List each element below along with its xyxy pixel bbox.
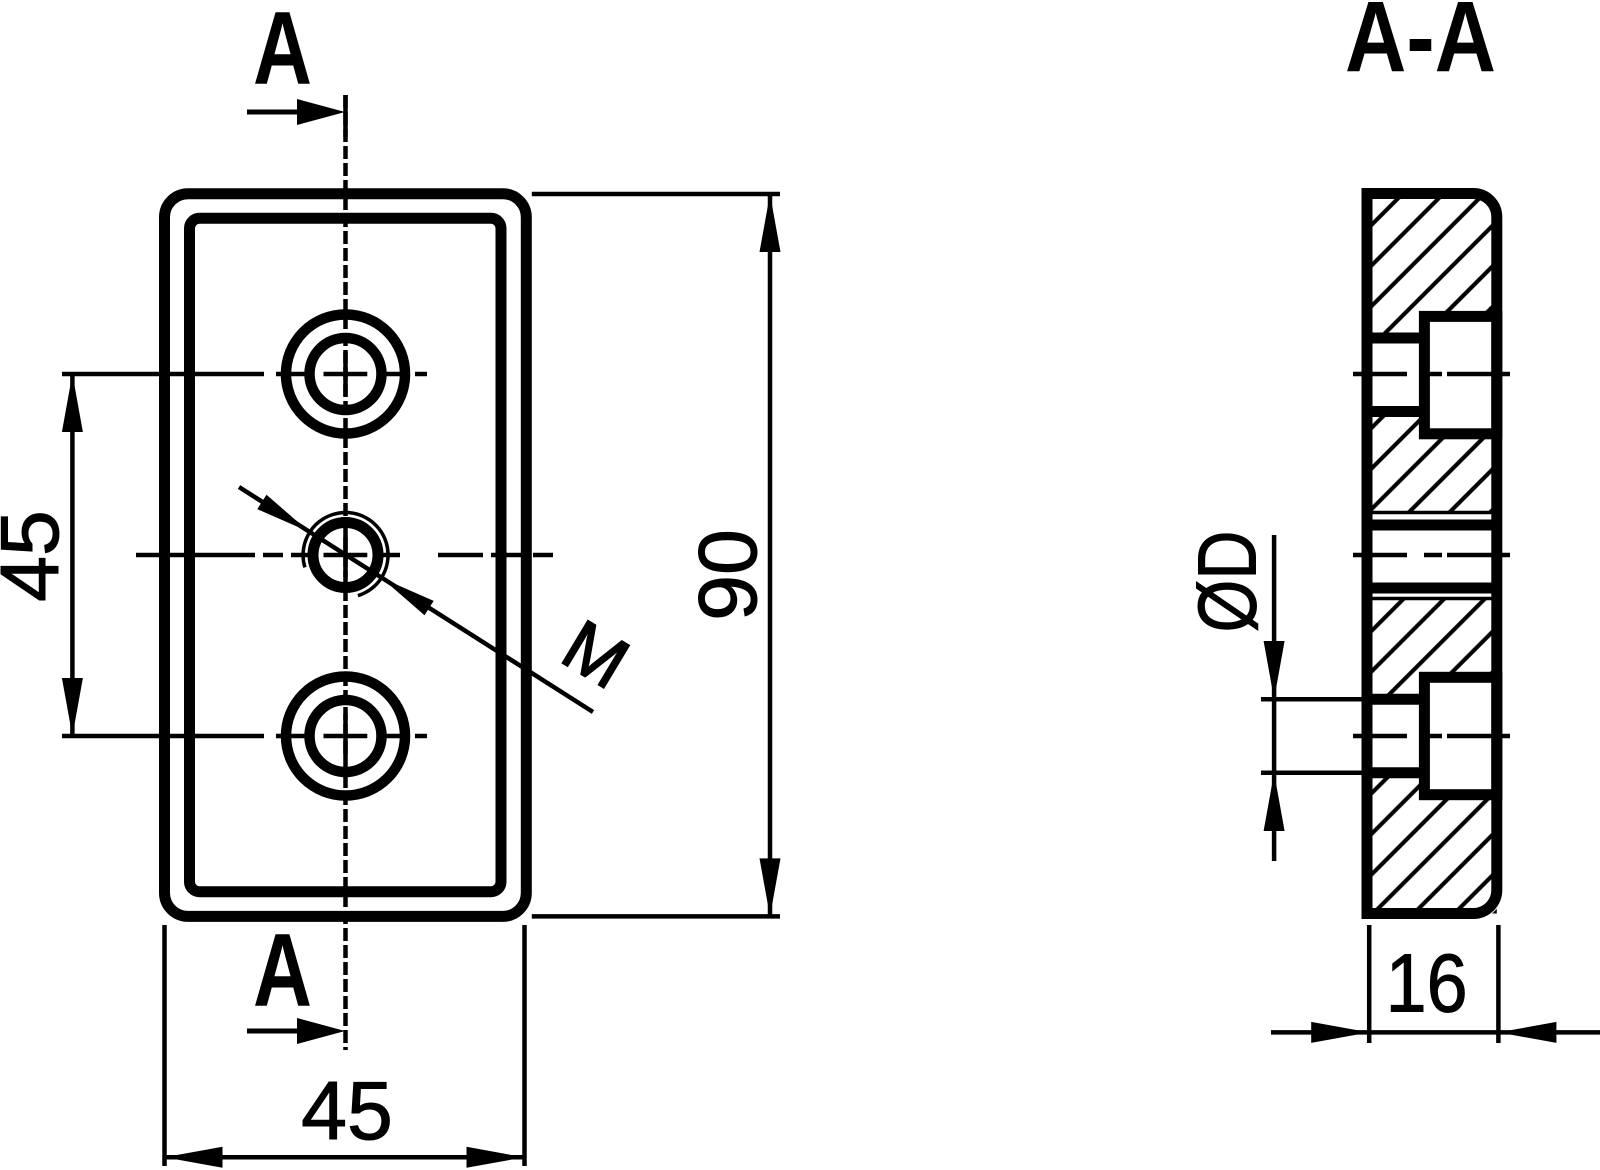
dimension 90 overall height right — [532, 192, 780, 197]
svg-text:90: 90 — [682, 529, 774, 621]
svg-text:A: A — [253, 913, 312, 1029]
section hatching — [1367, 194, 1497, 914]
plate outline front view — [165, 194, 527, 917]
section top hole through bore — [1362, 344, 1425, 407]
section label arrow top — [247, 110, 300, 115]
svg-text:16: 16 — [1386, 938, 1468, 1030]
section centerline bottom hole — [1353, 734, 1510, 739]
centerline top hole horizontal — [62, 372, 427, 377]
section centerline top hole — [1353, 372, 1510, 377]
svg-text:ØD: ØD — [1182, 531, 1274, 633]
counterbored hole top front view — [286, 315, 405, 434]
dimension OD through bore — [1261, 697, 1367, 702]
thread leader line M — [239, 487, 593, 712]
section top hole counterbore — [1424, 316, 1496, 433]
dimension 45 hole spacing left — [70, 374, 75, 736]
counterbored hole bottom front view — [286, 677, 405, 796]
svg-text:A: A — [253, 0, 312, 107]
threaded hole middle front view — [313, 523, 378, 588]
dimension 16 thickness — [1367, 925, 1372, 1043]
svg-text:A-A: A-A — [1345, 0, 1496, 93]
section bottom hole counterbore — [1424, 677, 1496, 794]
svg-text:45: 45 — [301, 1065, 393, 1157]
centerline bottom hole horizontal — [62, 734, 427, 739]
centerline middle hole horizontal — [136, 553, 553, 558]
section bottom hole through bore — [1362, 705, 1425, 768]
vertical centerline — [343, 95, 348, 1050]
plate inner contour front view — [190, 218, 502, 891]
thread arc middle hole — [303, 513, 388, 596]
section label arrow bottom — [247, 1029, 300, 1034]
section centerline middle hole — [1353, 553, 1510, 558]
section threaded hole — [1373, 531, 1492, 583]
section outline — [1367, 194, 1497, 914]
dimension 45 overall width bottom — [162, 925, 167, 1166]
svg-text:45: 45 — [0, 510, 76, 602]
